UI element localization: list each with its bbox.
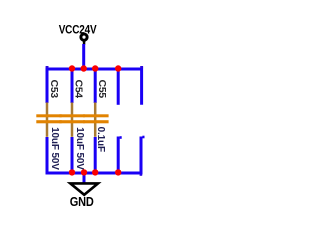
wire: VCC24V vertical from power port to top bus	[82, 44, 85, 69]
wire: C55 bottom lead	[94, 137, 97, 173]
node: junction bottom stub / bottom bus	[115, 169, 121, 175]
wire: top-left corner cap	[46, 66, 49, 68]
svg-text:C55: C55	[96, 80, 107, 99]
wire: stub tip mark left	[120, 136, 122, 139]
node: junction right stub / top bus	[115, 65, 121, 71]
svg-text:VCC24V: VCC24V	[59, 24, 97, 37]
wire: bottom bus with left rise to C53 and right stub rise	[47, 137, 141, 174]
wire: C55 top lead drop	[94, 69, 97, 103]
power port VCC24V (circle symbol)	[81, 34, 87, 45]
svg-text:10uF 50V: 10uF 50V	[74, 127, 85, 170]
wire: C54 bottom lead	[71, 137, 74, 173]
wire: GND drop from bottom bus	[83, 173, 86, 184]
wire: top-right corner cap	[140, 66, 143, 68]
node: junction C55 / top bus	[92, 65, 98, 71]
node: junction C55 / bottom bus	[92, 169, 98, 175]
capacitor C55	[83, 103, 108, 137]
wire: stub tip mark right	[142, 136, 144, 139]
node: junction VCC wire / top bus	[81, 65, 87, 71]
node: junction C54 / top bus	[69, 65, 75, 71]
wire: top bus with left drop to C53 and right end drop	[47, 69, 142, 105]
capacitor C53	[36, 103, 61, 137]
wire: right stub from top bus	[117, 69, 120, 105]
svg-text:C54: C54	[73, 80, 84, 99]
wire: bottom stub rising from bottom bus	[117, 137, 120, 174]
svg-text:C53: C53	[48, 80, 59, 99]
node: junction C54 / bottom bus	[69, 169, 75, 175]
wire: C54 top lead drop	[71, 69, 74, 103]
wire: bottom-right corner cap	[140, 174, 143, 176]
svg-text:10uF 50V: 10uF 50V	[49, 127, 60, 170]
ground symbol triangle	[70, 183, 98, 194]
svg-text:GND: GND	[70, 196, 94, 210]
capacitor C54	[59, 103, 84, 137]
node: junction GND wire / bottom bus	[81, 169, 87, 175]
